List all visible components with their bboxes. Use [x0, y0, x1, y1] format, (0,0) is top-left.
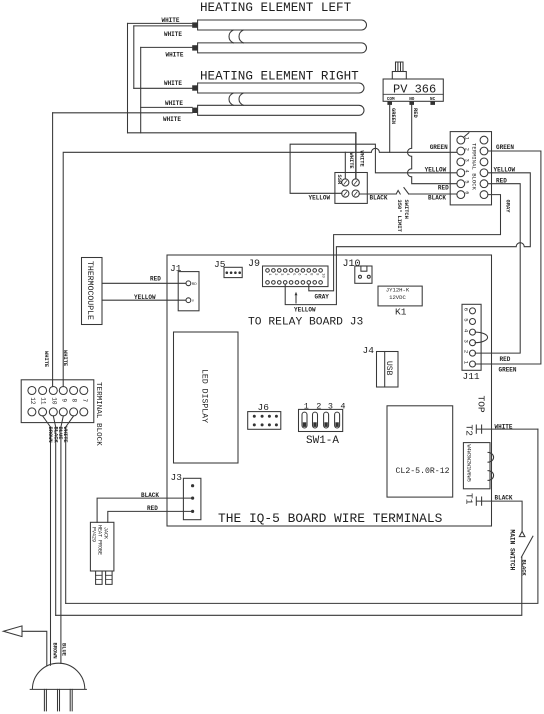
svg-text:JY12H-K: JY12H-K	[386, 287, 410, 294]
svg-text:9: 9	[314, 273, 318, 275]
svg-text:BLACK: BLACK	[428, 195, 446, 202]
svg-text:WHITE: WHITE	[164, 80, 182, 87]
svg-text:THERMOCOUPLE: THERMOCOUPLE	[85, 261, 94, 320]
svg-text:J10: J10	[343, 259, 361, 270]
svg-text:T2: T2	[464, 425, 475, 437]
svg-text:YELLOW: YELLOW	[425, 166, 447, 173]
svg-text:J5: J5	[214, 259, 226, 270]
svg-text:4: 4	[285, 273, 289, 275]
svg-text:2: 2	[316, 402, 321, 412]
svg-text:BLUE: BLUE	[61, 643, 67, 657]
svg-text:8: 8	[71, 399, 78, 403]
svg-text:RED: RED	[438, 184, 449, 191]
svg-text:SW1-A: SW1-A	[306, 435, 339, 447]
svg-text:RD: RD	[192, 283, 197, 287]
svg-text:J1: J1	[170, 263, 182, 274]
svg-text:7: 7	[81, 399, 88, 403]
svg-text:BROWN: BROWN	[51, 643, 57, 659]
svg-text:350° LIMIT: 350° LIMIT	[396, 200, 402, 233]
svg-text:SWITCH: SWITCH	[403, 200, 409, 219]
svg-text:TOP: TOP	[476, 396, 487, 413]
svg-text:J6: J6	[258, 402, 270, 413]
svg-text:5: 5	[462, 318, 469, 321]
svg-text:10: 10	[320, 273, 324, 277]
svg-text:J9: J9	[248, 259, 260, 270]
svg-text:RED: RED	[500, 356, 511, 363]
svg-text:CL2-5.0R-12: CL2-5.0R-12	[396, 467, 450, 476]
svg-text:2: 2	[273, 273, 277, 275]
svg-text:5: 5	[464, 180, 470, 183]
svg-text:3: 3	[464, 159, 470, 162]
svg-text:BLACK: BLACK	[521, 560, 527, 577]
svg-text:6: 6	[297, 273, 301, 275]
svg-text:THE IQ-5 BOARD WIRE TERMINALS: THE IQ-5 BOARD WIRE TERMINALS	[218, 511, 443, 526]
svg-text:2: 2	[464, 148, 470, 151]
svg-text:RED: RED	[147, 505, 158, 512]
svg-text:6: 6	[462, 308, 469, 311]
svg-text:6: 6	[464, 191, 470, 194]
svg-text:9: 9	[60, 399, 67, 403]
svg-text:YELLOW: YELLOW	[134, 294, 156, 301]
svg-text:WHITE: WHITE	[348, 153, 354, 170]
svg-text:3: 3	[328, 402, 333, 412]
svg-text:RED: RED	[496, 177, 507, 184]
svg-text:WHITE: WHITE	[495, 423, 513, 430]
svg-text:PV429: PV429	[91, 527, 97, 542]
svg-text:11: 11	[40, 397, 47, 405]
svg-text:COM: COM	[387, 97, 395, 102]
svg-text:WHITE: WHITE	[161, 17, 179, 24]
svg-text:NO: NO	[409, 97, 415, 102]
svg-text:GREEN: GREEN	[496, 144, 514, 151]
svg-text:TO RELAY BOARD J3: TO RELAY BOARD J3	[248, 317, 363, 329]
svg-text:J3: J3	[171, 472, 183, 483]
svg-text:WHITE: WHITE	[164, 31, 182, 38]
svg-text:HEATING ELEMENT RIGHT: HEATING ELEMENT RIGHT	[200, 70, 359, 84]
svg-text:WHITE: WHITE	[165, 100, 183, 107]
svg-text:JACK: JACK	[103, 527, 109, 539]
svg-text:4: 4	[464, 170, 470, 173]
svg-text:GREEN: GREEN	[390, 108, 396, 124]
svg-text:J4: J4	[363, 345, 375, 356]
svg-text:BROWN: BROWN	[47, 427, 53, 443]
svg-text:RED: RED	[150, 276, 161, 283]
svg-text:12: 12	[29, 397, 36, 405]
svg-text:4: 4	[340, 402, 345, 412]
svg-text:BLACK: BLACK	[370, 194, 388, 201]
svg-text:7: 7	[303, 273, 307, 275]
svg-text:NC: NC	[430, 97, 436, 102]
svg-text:12VDC: 12VDC	[389, 294, 406, 301]
svg-text:8: 8	[309, 273, 313, 275]
svg-text:1: 1	[304, 402, 309, 412]
svg-text:USB: USB	[384, 361, 393, 376]
svg-text:3: 3	[279, 273, 283, 275]
svg-text:PV 366: PV 366	[393, 83, 436, 97]
svg-text:YELLOW: YELLOW	[309, 194, 331, 201]
svg-text:GRAY: GRAY	[315, 294, 330, 301]
svg-text:HEAT PROBE: HEAT PROBE	[97, 525, 103, 555]
svg-text:MAIN SWITCH: MAIN SWITCH	[508, 530, 515, 571]
svg-text:1: 1	[464, 137, 470, 140]
svg-text:WHITE: WHITE	[62, 350, 68, 367]
svg-text:W4W3W2W1W6W5: W4W3W2W1W6W5	[466, 445, 472, 482]
svg-text:YELLOW: YELLOW	[494, 166, 516, 173]
svg-text:WHITE: WHITE	[43, 351, 49, 368]
svg-text:BLACK: BLACK	[141, 492, 159, 499]
svg-text:T1: T1	[464, 493, 475, 505]
svg-text:LED DISPLAY: LED DISPLAY	[200, 369, 209, 423]
svg-text:BLACK: BLACK	[495, 494, 513, 501]
svg-text:WHITE: WHITE	[165, 52, 183, 59]
svg-text:TERMINAL BLOCK: TERMINAL BLOCK	[471, 143, 478, 191]
svg-text:GRAY: GRAY	[505, 200, 511, 214]
svg-text:GREEN: GREEN	[499, 366, 517, 373]
svg-text:RED: RED	[412, 108, 418, 118]
svg-text:WHITE: WHITE	[62, 427, 68, 444]
svg-text:SSR: SSR	[336, 175, 342, 185]
svg-text:1: 1	[267, 273, 271, 275]
svg-text:J11: J11	[463, 371, 480, 382]
svg-text:WHITE: WHITE	[359, 151, 365, 168]
svg-text:5: 5	[291, 273, 295, 275]
svg-text:YELLOW: YELLOW	[294, 307, 316, 314]
svg-text:10: 10	[50, 397, 57, 405]
svg-text:K1: K1	[395, 307, 407, 318]
svg-text:HEATING ELEMENT LEFT: HEATING ELEMENT LEFT	[200, 1, 352, 15]
svg-text:GREEN: GREEN	[430, 144, 448, 151]
svg-text:WHITE: WHITE	[163, 116, 181, 123]
svg-text:3: 3	[462, 340, 469, 343]
svg-text:TERMINAL BLOCK: TERMINAL BLOCK	[94, 382, 102, 446]
svg-text:2: 2	[462, 350, 469, 353]
